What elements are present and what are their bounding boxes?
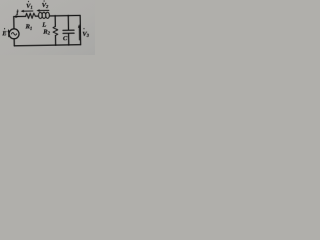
resistor R1 (26, 13, 36, 18)
svg-text:1: 1 (30, 5, 32, 10)
wire bottom horizontal (14, 45, 80, 46)
arrow E shaft (8, 31, 10, 37)
junction top of R2 branch (54, 15, 55, 16)
svg-text:C: C (63, 35, 68, 42)
junction bottom of C branch (68, 44, 69, 45)
arrow V3 head (78, 24, 81, 27)
wire right vertical (79, 15, 82, 44)
wire L to right corner (49, 14, 80, 17)
dot of E (4, 28, 5, 29)
svg-text:1: 1 (30, 26, 32, 31)
source circle E (9, 29, 19, 39)
resistor R2 branch upper wire (54, 16, 56, 27)
inductor L loop 3 (46, 12, 50, 18)
background paper (0, 0, 95, 55)
resistor R2 zigzag (53, 26, 58, 35)
capacitor C top plate (63, 29, 74, 31)
resistor R2 branch lower wire (54, 35, 56, 45)
dot of I (17, 9, 18, 10)
inductor L loop 2 (42, 12, 46, 18)
arrow E head (7, 29, 9, 32)
junction top of C branch (68, 15, 69, 16)
arrow V1 shaft (22, 10, 32, 12)
junction bottom of R2 branch (55, 44, 56, 45)
wire top left segment (14, 15, 26, 17)
dot of V1 (28, 1, 29, 2)
arrow V3 shaft (78, 27, 80, 40)
arrow I head on wire (15, 15, 18, 18)
wire left vertical lower (13, 39, 15, 46)
capacitor C branch upper wire (67, 16, 69, 30)
wire R1 to L (35, 15, 38, 17)
capacitor C bottom plate (63, 32, 74, 34)
svg-text:E: E (1, 30, 7, 37)
dot of V3 (83, 28, 84, 29)
arrow V2 head (36, 9, 39, 12)
capacitor C branch lower wire (68, 33, 70, 44)
dot of V2 (43, 0, 44, 1)
source sine wave (11, 32, 16, 35)
arrow V1 head (21, 10, 24, 13)
wire left vertical upper (13, 17, 15, 29)
inductor L loop 1 (38, 12, 42, 18)
arrow V2 shaft (38, 9, 49, 11)
